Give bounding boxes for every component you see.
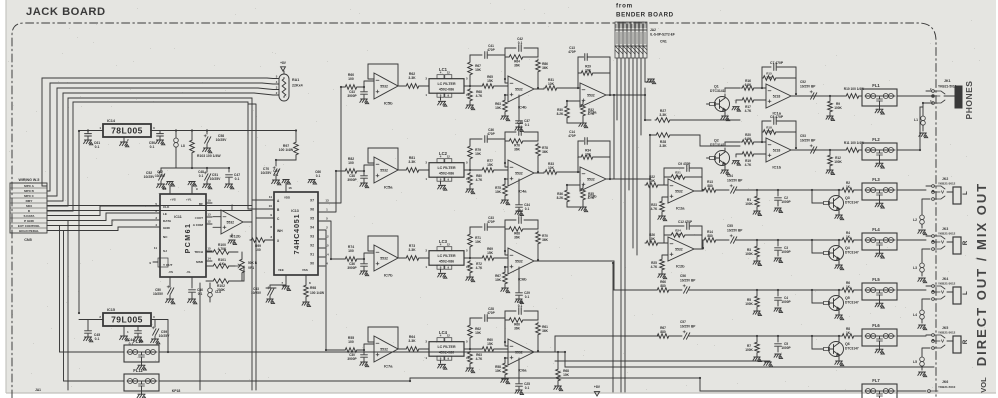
svg-text:4502-086: 4502-086 (439, 351, 454, 355)
svg-text:X6: X6 (310, 208, 314, 212)
svg-text:0.1: 0.1 (316, 174, 321, 178)
capacitor C50 0.1 (149, 131, 165, 150)
resistor R60 100 (344, 73, 364, 89)
svg-text:LC FILTER: LC FILTER (437, 345, 456, 349)
transistor Q4 DTC3147 (812, 240, 859, 263)
capacitor C12 470P (664, 220, 702, 249)
ground Q4 (835, 262, 844, 270)
svg-text:10/25V: 10/25V (251, 291, 262, 295)
capacitor C48 above IC11 (188, 170, 204, 188)
inductor L5 (913, 353, 927, 377)
svg-text:4.7K: 4.7K (745, 163, 752, 167)
svg-text:SJ: SJ (163, 249, 167, 253)
svg-text:10K: 10K (548, 82, 555, 86)
op-amp IC4b (505, 76, 544, 110)
svg-text:4.7K: 4.7K (745, 109, 752, 113)
svg-text:YKB21-5010: YKB21-5010 (938, 85, 957, 89)
ground Q3 (835, 212, 844, 220)
capacitor C51 10/25V (192, 168, 229, 189)
svg-text:10K: 10K (475, 68, 482, 72)
svg-text:4.7K: 4.7K (476, 94, 483, 98)
resistor R63 4.7K (466, 351, 483, 373)
svg-text:FL10: FL10 (133, 339, 143, 344)
svg-text:DMY: DMY (26, 199, 34, 203)
svg-text:5532: 5532 (380, 256, 388, 260)
filter FL4 (862, 227, 926, 258)
svg-text:4.7K: 4.7K (588, 112, 595, 116)
wire CN5 to IC11 LE (47, 213, 160, 221)
svg-text:FL4: FL4 (872, 227, 880, 232)
capacitor C33 470P (485, 216, 505, 251)
capacitor C34 0.1 (505, 209, 538, 251)
wire IC13 X to ch4 (325, 230, 344, 350)
inductor L2 (913, 211, 927, 235)
svg-text:VEE: VEE (278, 268, 284, 272)
wire ch4 out (544, 336, 659, 352)
wire ch1 mix tap (645, 119, 651, 121)
transistor Q2 DTC3141 (707, 139, 730, 169)
svg-text:78L005: 78L005 (111, 126, 143, 136)
regulator IC14 78L005 (103, 119, 151, 137)
svg-text:3900P: 3900P (347, 178, 357, 182)
svg-text:12: 12 (447, 71, 451, 75)
svg-text:5532: 5532 (587, 93, 595, 97)
svg-text:33K: 33K (766, 129, 772, 133)
capacitor C30 3900P (347, 350, 368, 367)
svg-text:IC2b: IC2b (676, 264, 685, 269)
svg-text:JK6: JK6 (942, 380, 948, 384)
resistor R22 10K (645, 175, 668, 187)
svg-text:36K: 36K (514, 64, 521, 68)
capacitor C37 0.1 (515, 95, 530, 132)
svg-text:10K: 10K (495, 369, 502, 373)
svg-text:0.1: 0.1 (518, 41, 523, 45)
svg-text:100K: 100K (834, 106, 842, 110)
wire L5 tap (922, 348, 930, 353)
capacitor C14 470P (568, 130, 610, 179)
svg-text:IC2a: IC2a (676, 206, 685, 211)
resistor R4 1K (812, 231, 862, 242)
filter FL1 (862, 83, 926, 114)
svg-text:Q4: Q4 (845, 246, 850, 250)
capacitor C64 above IC13 (273, 169, 290, 186)
svg-text:FL5: FL5 (872, 277, 880, 282)
svg-text:IC1b: IC1b (772, 165, 781, 170)
svg-text:12: 12 (447, 243, 451, 247)
svg-text:X3: X3 (310, 235, 314, 239)
svg-text:880: 880 (707, 184, 713, 188)
resistor R35 4.7K (579, 185, 595, 212)
svg-text:4.7K: 4.7K (651, 207, 658, 211)
inductor L3 (913, 259, 927, 283)
svg-text:13: 13 (325, 199, 329, 203)
svg-text:JK2: JK2 (942, 177, 948, 181)
resistor R6 1K (812, 281, 862, 292)
label CN1 (650, 28, 675, 44)
svg-text:Q1: Q1 (714, 85, 719, 89)
svg-text:880: 880 (660, 284, 666, 288)
svg-text:1000P: 1000P (781, 200, 791, 204)
svg-text:10: 10 (207, 199, 211, 203)
resistor R81 3.3K (405, 156, 429, 172)
svg-text:1K: 1K (846, 285, 851, 289)
svg-text:LC4: LC4 (439, 330, 448, 335)
svg-text:6.8K: 6.8K (745, 137, 752, 141)
resistor R29 10K (578, 65, 610, 76)
filter LC1 (425, 67, 470, 106)
svg-text:1K: 1K (220, 262, 225, 266)
op-amp IC2b 5532 (668, 237, 703, 269)
label VOL (979, 377, 988, 393)
resistor R67 880 (656, 326, 682, 338)
wire CN1 drops (617, 58, 645, 392)
svg-text:DTC3141: DTC3141 (710, 89, 725, 93)
wire IC13 X to ch3 (325, 221, 344, 259)
op-amp IC6a (505, 339, 544, 373)
svg-text:6.8K: 6.8K (745, 83, 752, 87)
resistor R102 200K (206, 266, 244, 292)
svg-text:+8V: +8V (280, 61, 287, 65)
svg-text:LC FILTER: LC FILTER (437, 166, 456, 170)
svg-text:LC3: LC3 (439, 239, 448, 244)
op-amp IC5b (364, 64, 405, 106)
resistor array RA1 (279, 71, 303, 101)
svg-text:EXT CONTROL: EXT CONTROL (18, 224, 40, 228)
svg-text:13: 13 (207, 213, 211, 217)
resistor R68 36K (505, 227, 538, 240)
resistor R62 3.3K (405, 72, 429, 88)
svg-text:4502-086: 4502-086 (439, 260, 454, 264)
svg-text:470P: 470P (487, 311, 495, 315)
wire FL2 up to jack (920, 107, 923, 150)
resistor R32 4.7K (579, 101, 595, 128)
svg-text:JK3: JK3 (942, 227, 948, 231)
resistor R79 10K (468, 139, 482, 170)
potentiometer VR1 (235, 252, 258, 281)
capacitor C47 0.1 (225, 168, 241, 189)
wire CN5 to IC11 GND (47, 227, 160, 231)
resistor R78 36K (536, 143, 549, 172)
svg-text:L8: L8 (181, 144, 185, 148)
svg-text:10/25V: 10/25V (261, 171, 272, 175)
resistor R36 8.2K (557, 185, 583, 207)
resistor R25 4.7K (651, 255, 668, 279)
svg-text:0.1: 0.1 (274, 173, 279, 177)
resistor R13 880 (703, 180, 729, 192)
svg-text:SDX: SDX (26, 204, 33, 208)
op-amp IC7a (364, 327, 405, 369)
svg-text:LC FILTER: LC FILTER (437, 254, 456, 258)
capacitor C5 1000P (757, 336, 812, 359)
svg-text:4.70K: 4.70K (218, 247, 227, 251)
svg-text:100K: 100K (745, 302, 753, 306)
svg-text:PHONES: PHONES (964, 81, 974, 120)
svg-text:-VL: -VL (186, 270, 191, 274)
svg-text:MPX A: MPX A (24, 184, 34, 188)
svg-text:10K: 10K (495, 190, 502, 194)
resistor R70 36K (536, 231, 549, 260)
svg-text:X5: X5 (310, 217, 314, 221)
svg-text:12: 12 (447, 334, 451, 338)
svg-text:10/25V: 10/25V (159, 334, 170, 338)
svg-text:36K: 36K (542, 66, 549, 70)
resistor R64 36K (505, 55, 538, 68)
svg-text:5532: 5532 (380, 168, 388, 172)
svg-text:0.1: 0.1 (518, 304, 523, 308)
svg-text:R10 100 1/4W: R10 100 1/4W (844, 87, 864, 91)
capacitor C4 1000P (757, 290, 812, 313)
wire L2 tap (922, 199, 930, 211)
wire IC13 X to ch1 (325, 87, 344, 203)
wire L3 tap (922, 249, 930, 259)
svg-text:VOL: VOL (979, 377, 988, 393)
svg-text:JACK BOARD: JACK BOARD (26, 6, 106, 18)
svg-text:L: L (963, 291, 969, 295)
resistor R103 100 1/4W (190, 131, 222, 169)
svg-text:C56: C56 (680, 274, 686, 278)
capacitor C55 10/25V BP (727, 224, 757, 243)
IC IC13 74HC4051 (269, 186, 329, 285)
svg-text:Q3: Q3 (845, 196, 850, 200)
wire CN5 to bus (42, 186, 73, 211)
svg-text:8.2K: 8.2K (557, 196, 564, 200)
resistor R62 10K (468, 318, 482, 349)
svg-text:DTC3147: DTC3147 (845, 347, 859, 351)
resistor R77 15K (470, 159, 508, 172)
svg-text:I OUT: I OUT (195, 216, 203, 220)
svg-text:YKB21-5012: YKB21-5012 (938, 232, 956, 236)
capacitor C56 10/25V BP (680, 274, 757, 293)
capacitor C63 below IC13 (251, 287, 276, 304)
svg-text:10K: 10K (563, 373, 570, 377)
title JACK BOARD (26, 6, 106, 18)
svg-text:5532: 5532 (515, 171, 523, 175)
wire left rail B (47, 231, 124, 382)
wire bottom rail B (700, 378, 862, 391)
svg-text:10K: 10K (475, 152, 482, 156)
resistor R73 3.3K (405, 244, 429, 260)
resistor R55 100 (344, 336, 364, 352)
filter FL7 (840, 378, 926, 398)
svg-text:IC12b: IC12b (230, 234, 241, 239)
inductor L8 (174, 131, 185, 169)
svg-text:74HC4051: 74HC4051 (292, 214, 301, 255)
connector CN1 (615, 22, 647, 58)
svg-text:IC7a: IC7a (384, 364, 393, 369)
svg-text:DTC3147: DTC3147 (845, 201, 859, 205)
svg-text:FL2: FL2 (872, 137, 880, 142)
capacitor C8 470P (762, 115, 796, 148)
svg-text:36K: 36K (514, 327, 521, 331)
svg-text:10K: 10K (675, 232, 681, 236)
svg-text:MPX C: MPX C (24, 194, 35, 198)
svg-text:0.1: 0.1 (199, 174, 204, 178)
svg-text:16: 16 (288, 186, 292, 190)
wire IC14 output rail (151, 126, 296, 131)
svg-text:0.1: 0.1 (235, 177, 240, 181)
resistor R75 10K (495, 179, 510, 205)
svg-text:L2: L2 (913, 218, 917, 222)
wire ch3 out (544, 261, 656, 290)
label PHONES (964, 81, 974, 120)
svg-text:NC: NC (163, 235, 168, 239)
svg-text:FL11: FL11 (133, 368, 143, 373)
svg-text:HOLD PEDAL: HOLD PEDAL (19, 229, 39, 233)
svg-text:36K: 36K (542, 150, 549, 154)
svg-text:1000P: 1000P (781, 300, 791, 304)
op-amp IC2a 5532 (668, 179, 703, 211)
resistor R68b 10K (554, 352, 570, 391)
svg-text:MSB: MSB (196, 260, 204, 264)
svg-text:470P: 470P (487, 48, 495, 52)
svg-text:0.1: 0.1 (525, 386, 530, 390)
svg-text:100 1/4W: 100 1/4W (310, 291, 325, 295)
transistor Q5 DTC3147 (812, 290, 859, 313)
wire bottom rail C (555, 360, 770, 362)
resistor R68 4.7K (466, 88, 483, 110)
transistor Q3 DTC3147 (812, 190, 859, 213)
svg-text:10/25V BP: 10/25V BP (727, 229, 743, 233)
svg-text:JK4: JK4 (942, 277, 948, 281)
resistor R34 10K (578, 149, 610, 160)
wire rail under IC13 b (255, 218, 257, 390)
capacitor C28 470P (485, 307, 505, 342)
resistor R58 10K (495, 358, 510, 384)
svg-text:Q5: Q5 (845, 296, 850, 300)
ground IC14 pin2 (120, 137, 129, 147)
svg-text:LC2: LC2 (439, 151, 448, 156)
svg-text:C55: C55 (727, 224, 733, 228)
svg-text:L5: L5 (913, 360, 917, 364)
svg-text:5532: 5532 (380, 347, 388, 351)
svg-text:C52: C52 (800, 80, 806, 84)
svg-text:C7 470P: C7 470P (770, 61, 784, 65)
resistor R101 1K (206, 258, 235, 268)
svg-text:36K: 36K (542, 329, 549, 333)
resistor R86 36K (536, 59, 549, 88)
svg-text:-VS: -VS (168, 270, 173, 274)
svg-text:FL6: FL6 (872, 323, 880, 328)
svg-text:100: 100 (348, 161, 354, 165)
svg-text:R103 100 1/4W: R103 100 1/4W (197, 154, 221, 158)
inductor L1 (914, 107, 928, 138)
wire out bus r1 (615, 94, 617, 96)
svg-text:WIRING W-5: WIRING W-5 (19, 178, 40, 182)
resistor R27 3.3K (655, 109, 740, 122)
op-amp IC4a (505, 160, 544, 194)
svg-text:+8V: +8V (594, 385, 601, 389)
svg-text:VDD: VDD (284, 196, 290, 200)
capacitor C53 10/25V BP (800, 134, 817, 153)
svg-text:BENDER BOARD: BENDER BOARD (616, 12, 674, 19)
svg-text:LE: LE (163, 212, 167, 216)
svg-text:10/25V BP: 10/25V BP (727, 179, 743, 183)
svg-text:10K: 10K (675, 174, 681, 178)
svg-text:4.7K: 4.7K (651, 265, 658, 269)
wire RA1 pin fan (254, 75, 279, 96)
svg-text:MPX B: MPX B (24, 189, 35, 193)
svg-text:1K: 1K (846, 185, 851, 189)
op-amp IC1b 5218 (762, 138, 845, 170)
capacitor C50b below IC11 (153, 283, 175, 304)
svg-text:X7: X7 (310, 199, 314, 203)
wire ch2 out to mixers (616, 135, 650, 243)
svg-text:470P: 470P (568, 134, 576, 138)
svg-text:1000P: 1000P (781, 346, 791, 350)
jack JK2 (926, 177, 969, 204)
svg-text:A COM: A COM (193, 223, 204, 227)
op-amp IC12b (213, 210, 252, 239)
svg-text:0.1: 0.1 (525, 295, 530, 299)
resistor R31 10K (544, 78, 578, 90)
svg-text:10/25V BP: 10/25V BP (800, 139, 816, 143)
svg-text:YKB21-5012: YKB21-5012 (938, 331, 956, 335)
svg-text:+VS: +VS (170, 198, 176, 202)
svg-text:4.7K: 4.7K (588, 196, 595, 200)
wire left rail A (47, 226, 60, 353)
svg-text:DATA: DATA (163, 219, 172, 223)
resistor R63 10K (495, 95, 510, 121)
svg-text:36K: 36K (542, 238, 549, 242)
resistor R20 6.8K (741, 133, 766, 144)
IC IC11 PCM61 (154, 187, 212, 283)
resistor R 100K IC1a (826, 96, 842, 121)
svg-text:12: 12 (207, 220, 211, 224)
svg-text:5532: 5532 (515, 259, 523, 263)
capacitor C34 0.1 (515, 179, 530, 216)
svg-text:1K: 1K (846, 235, 851, 239)
svg-text:CN1: CN1 (660, 40, 667, 44)
svg-text:4502-086: 4502-086 (439, 172, 454, 176)
wire L1 to jack ring (923, 103, 933, 107)
svg-text:0.1: 0.1 (525, 123, 530, 127)
ground IC11 Y OUT (149, 258, 168, 267)
wire bus to IC13 select (248, 98, 274, 218)
capacitor C57 10/25V BP (680, 320, 757, 339)
ground CN1 (645, 79, 656, 84)
resistor R82 100 (344, 157, 364, 173)
capacitor C2 1000P (757, 190, 812, 213)
filter FL5 (862, 277, 926, 308)
svg-text:0.1: 0.1 (525, 207, 530, 211)
svg-text:8.2K: 8.2K (557, 112, 564, 116)
capacitor C13 470P (568, 46, 610, 95)
wire bus CN5 to RA1 (42, 78, 267, 211)
op-amp IC6b (505, 248, 544, 282)
svg-text:IL-S-8P-S2T2-EF: IL-S-8P-S2T2-EF (650, 33, 675, 37)
resistor R65 15K (470, 75, 508, 88)
jack JK4 (926, 277, 969, 304)
svg-text:14: 14 (207, 257, 211, 261)
svg-text:IC14: IC14 (107, 119, 116, 123)
filter FL3 (862, 177, 926, 208)
capacitor C3 1000P (757, 240, 812, 263)
wire rail under IC13 (251, 200, 253, 390)
resistor R30 8.2K (557, 101, 583, 123)
label DIRECT OUT MIX OUT (974, 182, 989, 366)
wire IC13 X to ch2 (325, 171, 344, 212)
resistor R72 4.7K (466, 260, 483, 282)
resistor R18 33K (762, 126, 796, 143)
svg-text:10/25V: 10/25V (216, 138, 227, 142)
svg-text:36K: 36K (514, 148, 521, 152)
svg-text:16: 16 (163, 187, 167, 191)
svg-text:5532: 5532 (675, 189, 683, 193)
svg-text:C9 470P: C9 470P (678, 162, 691, 166)
svg-text:100: 100 (348, 77, 354, 81)
svg-text:CLK: CLK (163, 205, 170, 209)
resistor R61 36K (536, 322, 549, 351)
